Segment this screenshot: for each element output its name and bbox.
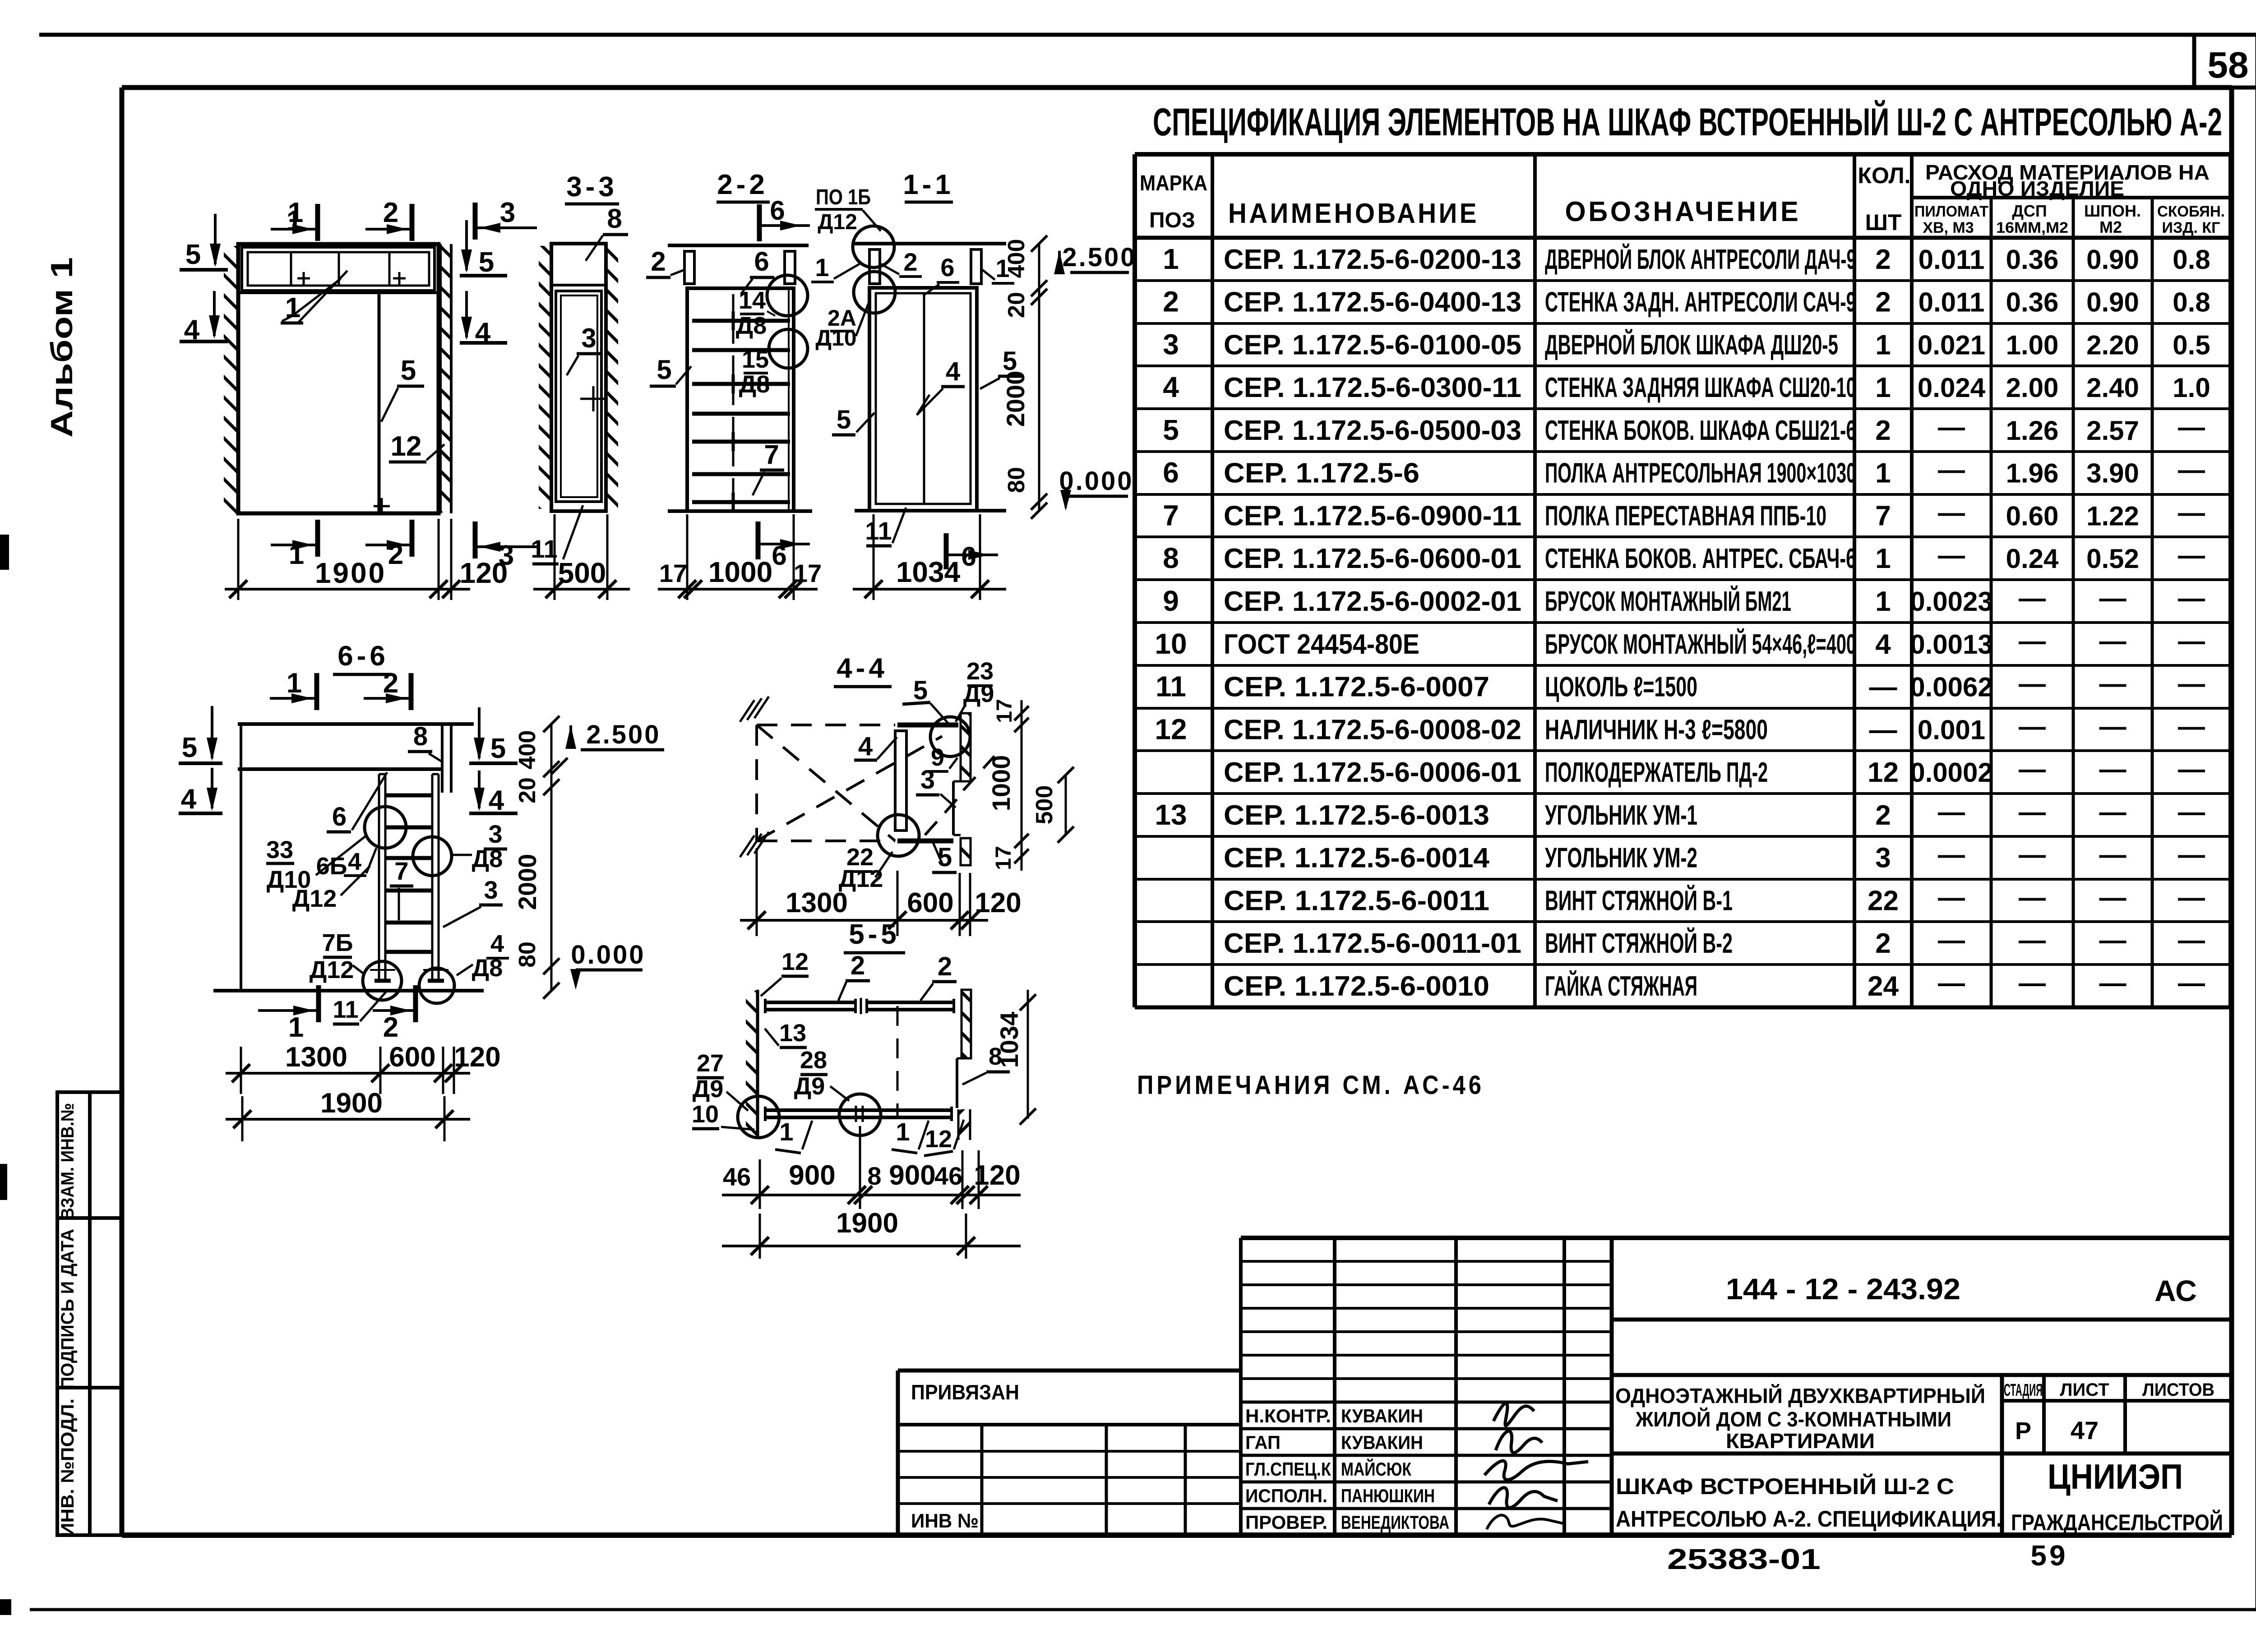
svg-text:—: — bbox=[2019, 925, 2046, 955]
svg-text:1.0: 1.0 bbox=[2173, 373, 2210, 403]
svg-text:МАРКА: МАРКА bbox=[1140, 171, 1207, 195]
svg-text:27: 27 bbox=[697, 1050, 724, 1077]
svg-text:500: 500 bbox=[558, 557, 606, 589]
svg-text:0.36: 0.36 bbox=[2006, 245, 2059, 275]
svg-text:3: 3 bbox=[920, 765, 935, 794]
svg-text:ШКАФ ВСТРОЕННЫЙ Ш-2 С: ШКАФ ВСТРОЕННЫЙ Ш-2 С bbox=[1616, 1473, 1954, 1499]
svg-text:6: 6 bbox=[940, 253, 954, 281]
svg-text:НАИМЕНОВАНИЕ: НАИМЕНОВАНИЕ bbox=[1228, 198, 1479, 229]
svg-text:33: 33 bbox=[266, 836, 293, 863]
svg-text:—: — bbox=[2099, 882, 2127, 912]
svg-text:0.60: 0.60 bbox=[2006, 501, 2059, 531]
svg-text:4: 4 bbox=[181, 784, 197, 815]
svg-text:Р: Р bbox=[2015, 1417, 2031, 1444]
svg-text:2: 2 bbox=[903, 248, 917, 276]
svg-text:600: 600 bbox=[389, 1042, 435, 1073]
svg-text:3: 3 bbox=[500, 197, 515, 228]
svg-text:ПОЛКА ПЕРЕСТАВНАЯ ППБ-10: ПОЛКА ПЕРЕСТАВНАЯ ППБ-10 bbox=[1545, 500, 1826, 531]
svg-text:1034: 1034 bbox=[896, 556, 961, 588]
svg-text:1.22: 1.22 bbox=[2086, 501, 2139, 531]
svg-text:11: 11 bbox=[865, 517, 892, 545]
svg-text:400: 400 bbox=[1003, 239, 1030, 278]
svg-text:УГОЛЬНИК УМ-1: УГОЛЬНИК УМ-1 bbox=[1545, 800, 1697, 831]
svg-text:—: — bbox=[2178, 754, 2205, 784]
svg-text:Н.КОНТР.: Н.КОНТР. bbox=[1245, 1405, 1331, 1426]
svg-text:2.500: 2.500 bbox=[1062, 243, 1137, 272]
svg-text:ПРИВЯЗАН: ПРИВЯЗАН bbox=[911, 1380, 1019, 1404]
svg-text:ЦОКОЛЬ ℓ=1500: ЦОКОЛЬ ℓ=1500 bbox=[1545, 672, 1697, 703]
svg-text:—: — bbox=[2178, 455, 2205, 485]
svg-text:4: 4 bbox=[1875, 629, 1891, 660]
svg-text:ПРОВЕР.: ПРОВЕР. bbox=[1245, 1512, 1327, 1533]
svg-text:1900: 1900 bbox=[315, 557, 386, 589]
svg-text:Д8: Д8 bbox=[736, 312, 767, 339]
svg-text:1: 1 bbox=[1875, 372, 1891, 403]
svg-text:0.011: 0.011 bbox=[1919, 245, 1985, 275]
svg-text:СТЕНКА ЗАДНЯЯ ШКАФА СШ20-10: СТЕНКА ЗАДНЯЯ ШКАФА СШ20-10 bbox=[1545, 372, 1856, 403]
svg-text:2.40: 2.40 bbox=[2086, 373, 2139, 403]
svg-text:—: — bbox=[1938, 540, 1965, 570]
svg-text:Д12: Д12 bbox=[818, 210, 857, 234]
svg-text:СПЕЦИФИКАЦИЯ ЭЛЕМЕНТОВ НА ШКАФ: СПЕЦИФИКАЦИЯ ЭЛЕМЕНТОВ НА ШКАФ ВСТРОЕННЫ… bbox=[1153, 100, 2222, 144]
svg-text:2: 2 bbox=[851, 951, 865, 980]
svg-text:Альбом 1: Альбом 1 bbox=[45, 257, 79, 438]
svg-text:КУВАКИН: КУВАКИН bbox=[1341, 1405, 1423, 1426]
svg-text:0.001: 0.001 bbox=[1918, 715, 1985, 745]
svg-text:1: 1 bbox=[288, 1012, 304, 1043]
svg-text:1900: 1900 bbox=[836, 1208, 898, 1239]
svg-text:БРУСОК МОНТАЖНЫЙ БМ21: БРУСОК МОНТАЖНЫЙ БМ21 bbox=[1545, 586, 1791, 617]
svg-text:5: 5 bbox=[401, 355, 416, 386]
svg-text:ПОЗ: ПОЗ bbox=[1149, 208, 1195, 232]
svg-text:6Б: 6Б bbox=[316, 853, 347, 880]
svg-text:3: 3 bbox=[1875, 843, 1891, 874]
svg-text:0.0002: 0.0002 bbox=[1910, 757, 1993, 788]
svg-text:—: — bbox=[2019, 583, 2046, 613]
svg-text:17: 17 bbox=[659, 559, 687, 587]
svg-text:10: 10 bbox=[1155, 628, 1187, 660]
svg-text:—: — bbox=[2178, 497, 2205, 527]
svg-text:5-5: 5-5 bbox=[849, 919, 900, 950]
svg-text:—: — bbox=[2099, 583, 2127, 613]
svg-text:—: — bbox=[2178, 840, 2205, 870]
svg-text:—: — bbox=[2099, 840, 2127, 870]
svg-text:—: — bbox=[2178, 540, 2205, 570]
svg-text:8: 8 bbox=[413, 722, 428, 751]
svg-text:0.36: 0.36 bbox=[2006, 287, 2059, 318]
svg-text:5: 5 bbox=[479, 247, 494, 278]
svg-text:0.024: 0.024 bbox=[1918, 373, 1986, 403]
svg-text:6: 6 bbox=[770, 195, 785, 226]
svg-text:1: 1 bbox=[288, 197, 303, 228]
svg-text:СЕР. 1.172.5-6-0900-11: СЕР. 1.172.5-6-0900-11 bbox=[1224, 500, 1521, 531]
svg-text:0.90: 0.90 bbox=[2086, 245, 2139, 275]
svg-text:СЕР. 1.172.5-6-0011: СЕР. 1.172.5-6-0011 bbox=[1224, 885, 1489, 916]
svg-text:2.500: 2.500 bbox=[586, 720, 661, 749]
svg-text:—: — bbox=[2178, 711, 2205, 741]
svg-text:8: 8 bbox=[607, 203, 622, 234]
svg-text:ВЕНЕДИКТОВА: ВЕНЕДИКТОВА bbox=[1341, 1512, 1449, 1533]
svg-text:1000: 1000 bbox=[987, 755, 1015, 812]
svg-text:3: 3 bbox=[1163, 328, 1179, 360]
svg-text:4: 4 bbox=[946, 357, 960, 386]
svg-text:1300: 1300 bbox=[786, 887, 848, 918]
svg-text:ГАЙКА СТЯЖНАЯ: ГАЙКА СТЯЖНАЯ bbox=[1545, 970, 1697, 1002]
svg-text:СЕР. 1.172.5-6-0008-02: СЕР. 1.172.5-6-0008-02 bbox=[1224, 714, 1521, 745]
svg-text:КУВАКИН: КУВАКИН bbox=[1341, 1432, 1423, 1453]
svg-text:1300: 1300 bbox=[285, 1042, 347, 1073]
svg-text:—: — bbox=[1938, 968, 1965, 998]
svg-text:—: — bbox=[1938, 925, 1965, 955]
svg-text:1: 1 bbox=[896, 1117, 910, 1146]
svg-text:0.5: 0.5 bbox=[2173, 330, 2210, 360]
svg-text:6: 6 bbox=[961, 541, 976, 572]
svg-text:—: — bbox=[2019, 669, 2046, 699]
svg-text:ВИНТ СТЯЖНОЙ В-1: ВИНТ СТЯЖНОЙ В-1 bbox=[1545, 885, 1733, 916]
svg-text:ЛИСТ: ЛИСТ bbox=[2060, 1380, 2109, 1400]
svg-text:—: — bbox=[2019, 840, 2046, 870]
svg-text:ШПОН.: ШПОН. bbox=[2084, 202, 2141, 220]
svg-text:—: — bbox=[2019, 968, 2046, 998]
svg-text:25383-01: 25383-01 bbox=[1667, 1543, 1821, 1575]
svg-text:1: 1 bbox=[285, 292, 300, 323]
svg-text:2: 2 bbox=[1163, 286, 1179, 318]
svg-text:ПОДПИСЬ И ДАТА: ПОДПИСЬ И ДАТА bbox=[58, 1229, 78, 1389]
svg-text:4-4: 4-4 bbox=[837, 653, 888, 684]
svg-text:7: 7 bbox=[1875, 500, 1891, 531]
svg-text:7: 7 bbox=[764, 439, 779, 470]
svg-text:СТАДИЯ: СТАДИЯ bbox=[2004, 1381, 2043, 1400]
svg-text:3: 3 bbox=[488, 820, 502, 848]
svg-text:12: 12 bbox=[925, 1126, 952, 1153]
svg-text:Д8: Д8 bbox=[739, 371, 770, 398]
svg-text:0.0062: 0.0062 bbox=[1910, 672, 1993, 702]
svg-text:—: — bbox=[2178, 412, 2205, 442]
svg-text:ГЛ.СПЕЦ.К: ГЛ.СПЕЦ.К bbox=[1245, 1458, 1331, 1480]
svg-text:11: 11 bbox=[1156, 670, 1186, 703]
svg-text:1: 1 bbox=[1875, 458, 1891, 489]
svg-text:—: — bbox=[1938, 882, 1965, 912]
svg-text:КВАРТИРАМИ: КВАРТИРАМИ bbox=[1726, 1429, 1875, 1453]
svg-text:2: 2 bbox=[1875, 287, 1891, 318]
svg-text:Д8: Д8 bbox=[472, 955, 503, 982]
svg-text:СКОБЯН.: СКОБЯН. bbox=[2157, 203, 2225, 220]
svg-text:СЕР. 1.172.5-6-0007: СЕР. 1.172.5-6-0007 bbox=[1224, 672, 1489, 703]
svg-text:500: 500 bbox=[1031, 785, 1058, 825]
svg-text:ОБОЗНАЧЕНИЕ: ОБОЗНАЧЕНИЕ bbox=[1565, 196, 1801, 227]
svg-text:2: 2 bbox=[938, 952, 952, 981]
svg-text:144 - 12 - 243.92: 144 - 12 - 243.92 bbox=[1726, 1272, 1960, 1306]
svg-text:22: 22 bbox=[1868, 885, 1899, 916]
svg-text:2-2: 2-2 bbox=[717, 169, 768, 200]
svg-text:ПИЛОМАТ: ПИЛОМАТ bbox=[1914, 203, 1988, 220]
svg-text:—: — bbox=[2099, 754, 2127, 784]
svg-text:5: 5 bbox=[490, 733, 506, 764]
svg-text:0.0013: 0.0013 bbox=[1910, 629, 1993, 660]
svg-text:ОДНОЭТАЖНЫЙ ДВУХКВАРТИРНЫЙ: ОДНОЭТАЖНЫЙ ДВУХКВАРТИРНЫЙ bbox=[1615, 1384, 1985, 1407]
svg-text:1.26: 1.26 bbox=[2006, 415, 2059, 446]
svg-text:СЕР. 1.172.5-6-0300-11: СЕР. 1.172.5-6-0300-11 bbox=[1224, 372, 1521, 403]
svg-text:3: 3 bbox=[484, 876, 498, 904]
svg-text:—: — bbox=[2178, 626, 2205, 656]
svg-text:—: — bbox=[1869, 672, 1897, 703]
svg-text:1: 1 bbox=[1163, 243, 1179, 275]
svg-text:ПОЛКА АНТРЕСОЛЬНАЯ 1900×1030: ПОЛКА АНТРЕСОЛЬНАЯ 1900×1030 bbox=[1545, 458, 1856, 489]
svg-text:М2: М2 bbox=[2099, 218, 2122, 236]
svg-text:СЕР. 1.172.5-6-0600-01: СЕР. 1.172.5-6-0600-01 bbox=[1224, 543, 1521, 574]
svg-text:1: 1 bbox=[815, 253, 829, 281]
svg-text:7: 7 bbox=[1163, 499, 1179, 531]
svg-text:—: — bbox=[1938, 797, 1965, 827]
svg-text:Д12: Д12 bbox=[310, 956, 354, 983]
svg-text:0.90: 0.90 bbox=[2086, 287, 2139, 318]
svg-text:МАЙСЮК: МАЙСЮК bbox=[1341, 1458, 1411, 1480]
svg-text:2.20: 2.20 bbox=[2086, 330, 2139, 360]
svg-text:СТЕНКА ЗАДН. АНТРЕСОЛИ САЧ-9: СТЕНКА ЗАДН. АНТРЕСОЛИ САЧ-9 bbox=[1545, 287, 1856, 318]
svg-text:ГОСТ 24454-80Е: ГОСТ 24454-80Е bbox=[1224, 629, 1419, 660]
svg-text:17: 17 bbox=[794, 559, 822, 587]
svg-text:58: 58 bbox=[2207, 45, 2248, 86]
svg-text:ВИНТ СТЯЖНОЙ В-2: ВИНТ СТЯЖНОЙ В-2 bbox=[1545, 928, 1733, 959]
svg-text:—: — bbox=[1938, 412, 1965, 442]
svg-text:—: — bbox=[2178, 882, 2205, 912]
svg-text:Д9: Д9 bbox=[794, 1073, 825, 1100]
svg-text:3: 3 bbox=[581, 323, 596, 353]
svg-text:1: 1 bbox=[1875, 329, 1891, 360]
svg-text:3-3: 3-3 bbox=[566, 171, 618, 203]
svg-text:СЕР. 1.172.5-6-0500-03: СЕР. 1.172.5-6-0500-03 bbox=[1224, 415, 1521, 446]
svg-text:600: 600 bbox=[907, 887, 953, 918]
svg-text:0.8: 0.8 bbox=[2173, 245, 2210, 275]
svg-text:80: 80 bbox=[514, 941, 541, 968]
svg-text:СЕР. 1.172.5-6-0014: СЕР. 1.172.5-6-0014 bbox=[1224, 843, 1490, 874]
svg-text:0.011: 0.011 bbox=[1919, 287, 1985, 318]
svg-text:5: 5 bbox=[837, 405, 851, 434]
svg-text:12: 12 bbox=[781, 948, 809, 975]
svg-text:Д9: Д9 bbox=[693, 1075, 724, 1103]
svg-text:—: — bbox=[2178, 968, 2205, 998]
svg-text:2: 2 bbox=[1875, 244, 1891, 275]
svg-text:6: 6 bbox=[1163, 457, 1179, 489]
svg-text:—: — bbox=[2178, 797, 2205, 827]
svg-text:6: 6 bbox=[772, 540, 786, 571]
svg-text:ПАНЮШКИН: ПАНЮШКИН bbox=[1341, 1485, 1435, 1506]
svg-text:2: 2 bbox=[383, 197, 398, 228]
svg-text:13: 13 bbox=[779, 1020, 806, 1047]
svg-text:0.000: 0.000 bbox=[571, 940, 645, 969]
svg-text:—: — bbox=[2178, 583, 2205, 613]
svg-text:2: 2 bbox=[1875, 800, 1891, 831]
svg-text:ПОЛКОДЕРЖАТЕЛЬ ПД-2: ПОЛКОДЕРЖАТЕЛЬ ПД-2 bbox=[1545, 757, 1768, 788]
svg-text:—: — bbox=[2019, 882, 2046, 912]
svg-text:—: — bbox=[2099, 626, 2127, 656]
svg-text:0.0023: 0.0023 bbox=[1910, 586, 1993, 617]
svg-text:9: 9 bbox=[1163, 585, 1179, 617]
svg-text:1: 1 bbox=[779, 1117, 793, 1146]
svg-text:АНТРЕСОЛЬЮ А-2. СПЕЦИФИКАЦИЯ.: АНТРЕСОЛЬЮ А-2. СПЕЦИФИКАЦИЯ. bbox=[1616, 1506, 2002, 1532]
svg-text:2: 2 bbox=[383, 668, 398, 699]
svg-text:0.021: 0.021 bbox=[1918, 330, 1985, 360]
svg-text:1: 1 bbox=[1875, 543, 1891, 574]
svg-text:ВЗАМ. ИНВ.№: ВЗАМ. ИНВ.№ bbox=[58, 1103, 78, 1220]
svg-text:ГРАЖДАНСЕЛЬСТРОЙ: ГРАЖДАНСЕЛЬСТРОЙ bbox=[2011, 1509, 2223, 1535]
svg-text:5: 5 bbox=[185, 239, 201, 270]
svg-text:ИНВ. №ПОДЛ.: ИНВ. №ПОДЛ. bbox=[58, 1398, 78, 1537]
svg-text:400: 400 bbox=[514, 730, 541, 770]
svg-text:ХВ, М3: ХВ, М3 bbox=[1923, 219, 1974, 236]
svg-text:2000: 2000 bbox=[1001, 371, 1030, 427]
svg-text:12: 12 bbox=[1155, 713, 1187, 745]
svg-text:СЕР. 1.172.5-6-0010: СЕР. 1.172.5-6-0010 bbox=[1224, 971, 1489, 1002]
svg-text:ПО 1Б: ПО 1Б bbox=[816, 185, 871, 209]
svg-text:ПРИМЕЧАНИЯ СМ. АС-46: ПРИМЕЧАНИЯ СМ. АС-46 bbox=[1137, 1071, 1484, 1100]
svg-text:БРУСОК МОНТАЖНЫЙ 54×46,ℓ=400: БРУСОК МОНТАЖНЫЙ 54×46,ℓ=400 bbox=[1545, 628, 1856, 660]
svg-text:46: 46 bbox=[934, 1162, 962, 1190]
svg-text:ЛИСТОВ: ЛИСТОВ bbox=[2142, 1380, 2214, 1400]
svg-text:СЕР. 1.172.5-6-0400-13: СЕР. 1.172.5-6-0400-13 bbox=[1224, 287, 1521, 318]
svg-text:2.57: 2.57 bbox=[2086, 415, 2139, 446]
svg-text:2: 2 bbox=[1875, 415, 1891, 446]
svg-text:Д9: Д9 bbox=[963, 680, 994, 707]
svg-text:6-6: 6-6 bbox=[337, 641, 389, 672]
svg-text:900: 900 bbox=[889, 1160, 935, 1191]
svg-text:АС: АС bbox=[2154, 1274, 2197, 1307]
svg-text:5: 5 bbox=[656, 355, 671, 385]
svg-text:5: 5 bbox=[182, 732, 197, 763]
svg-text:—: — bbox=[1938, 840, 1965, 870]
svg-text:10: 10 bbox=[692, 1101, 719, 1128]
svg-text:2: 2 bbox=[388, 539, 403, 570]
svg-text:Д8: Д8 bbox=[472, 845, 503, 872]
svg-text:47: 47 bbox=[2071, 1416, 2099, 1444]
svg-text:1-1: 1-1 bbox=[903, 169, 954, 200]
svg-text:СЕР. 1.172.5-6-0013: СЕР. 1.172.5-6-0013 bbox=[1224, 800, 1489, 831]
svg-text:15: 15 bbox=[742, 346, 769, 373]
svg-text:7Б: 7Б bbox=[322, 929, 353, 956]
svg-text:5: 5 bbox=[1163, 414, 1179, 446]
svg-text:17: 17 bbox=[992, 846, 1016, 870]
svg-text:Д12: Д12 bbox=[292, 885, 337, 912]
svg-text:6: 6 bbox=[754, 246, 769, 277]
svg-text:УГОЛЬНИК УМ-2: УГОЛЬНИК УМ-2 bbox=[1545, 843, 1697, 874]
svg-text:1: 1 bbox=[287, 668, 302, 699]
svg-text:ЦНИИЭП: ЦНИИЭП bbox=[2048, 1457, 2183, 1496]
svg-text:2000: 2000 bbox=[513, 854, 541, 910]
svg-text:—: — bbox=[1938, 497, 1965, 527]
svg-text:16ММ,М2: 16ММ,М2 bbox=[1996, 219, 2068, 236]
svg-text:3.90: 3.90 bbox=[2086, 458, 2139, 489]
svg-text:2.00: 2.00 bbox=[2006, 373, 2059, 403]
svg-text:4: 4 bbox=[1163, 371, 1179, 403]
svg-text:—: — bbox=[2099, 711, 2127, 741]
svg-text:0.8: 0.8 bbox=[2173, 287, 2210, 318]
svg-text:ИНВ №: ИНВ № bbox=[911, 1510, 979, 1532]
svg-text:Д10: Д10 bbox=[815, 325, 856, 351]
svg-text:1900: 1900 bbox=[320, 1088, 383, 1119]
svg-text:20: 20 bbox=[514, 777, 541, 803]
svg-text:СЕР. 1.172.5-6-0006-01: СЕР. 1.172.5-6-0006-01 bbox=[1224, 757, 1521, 788]
svg-text:СТЕНКА БОКОВ. АНТРЕС. СБАЧ-6: СТЕНКА БОКОВ. АНТРЕС. СБАЧ-6 bbox=[1545, 543, 1856, 574]
svg-text:КОЛ.: КОЛ. bbox=[1858, 163, 1910, 188]
svg-text:1: 1 bbox=[289, 539, 304, 570]
svg-text:СЕР. 1.172.5-6-0002-01: СЕР. 1.172.5-6-0002-01 bbox=[1224, 586, 1521, 617]
svg-text:ГАП: ГАП bbox=[1245, 1432, 1281, 1453]
svg-text:1: 1 bbox=[1875, 586, 1891, 617]
svg-text:2: 2 bbox=[651, 246, 666, 277]
svg-text:12: 12 bbox=[391, 431, 422, 462]
svg-text:17: 17 bbox=[993, 699, 1017, 723]
svg-text:ИСПОЛН.: ИСПОЛН. bbox=[1245, 1485, 1327, 1506]
svg-text:ДВЕРНОЙ БЛОК АНТРЕСОЛИ ДАЧ-9: ДВЕРНОЙ БЛОК АНТРЕСОЛИ ДАЧ-9 bbox=[1545, 244, 1856, 275]
svg-text:ШТ: ШТ bbox=[1865, 210, 1902, 235]
svg-text:НАЛИЧНИК Н-3 ℓ=5800: НАЛИЧНИК Н-3 ℓ=5800 bbox=[1545, 714, 1768, 745]
svg-text:11: 11 bbox=[333, 996, 358, 1023]
svg-text:12: 12 bbox=[1868, 757, 1899, 788]
svg-text:2: 2 bbox=[1875, 928, 1891, 959]
svg-text:—: — bbox=[2019, 626, 2046, 656]
svg-text:120: 120 bbox=[975, 887, 1021, 918]
svg-text:2: 2 bbox=[383, 1012, 398, 1043]
svg-text:4: 4 bbox=[858, 732, 873, 761]
svg-text:59: 59 bbox=[2030, 1539, 2068, 1572]
svg-text:7: 7 bbox=[394, 857, 408, 885]
svg-text:СЕР. 1.172.5-6-0011-01: СЕР. 1.172.5-6-0011-01 bbox=[1224, 928, 1521, 959]
svg-text:СЕР. 1.172.5-6: СЕР. 1.172.5-6 bbox=[1224, 458, 1419, 489]
svg-text:СТЕНКА БОКОВ. ШКАФА СБШ21-6: СТЕНКА БОКОВ. ШКАФА СБШ21-6 bbox=[1545, 415, 1856, 446]
svg-text:1034: 1034 bbox=[995, 1012, 1023, 1068]
svg-text:8: 8 bbox=[1163, 542, 1179, 574]
svg-text:ЖИЛОЙ ДОМ С 3-КОМНАТНЫМИ: ЖИЛОЙ ДОМ С 3-КОМНАТНЫМИ bbox=[1635, 1407, 1951, 1431]
svg-text:6: 6 bbox=[332, 802, 347, 831]
svg-text:4: 4 bbox=[489, 785, 504, 816]
svg-text:—: — bbox=[2178, 669, 2205, 699]
svg-text:1.00: 1.00 bbox=[2006, 330, 2059, 360]
svg-text:900: 900 bbox=[789, 1160, 835, 1191]
svg-text:1000: 1000 bbox=[708, 556, 772, 588]
svg-text:—: — bbox=[2099, 925, 2127, 955]
svg-text:80: 80 bbox=[1003, 467, 1030, 493]
svg-text:—: — bbox=[2099, 797, 2127, 827]
svg-text:СЕР. 1.172.5-6-0100-05: СЕР. 1.172.5-6-0100-05 bbox=[1224, 329, 1521, 360]
svg-text:5: 5 bbox=[913, 676, 928, 705]
svg-text:24: 24 bbox=[1868, 971, 1899, 1002]
svg-text:4: 4 bbox=[348, 848, 361, 875]
svg-text:ДВЕРНОЙ БЛОК ШКАФА ДШ20-5: ДВЕРНОЙ БЛОК ШКАФА ДШ20-5 bbox=[1545, 329, 1838, 360]
svg-text:—: — bbox=[1938, 455, 1965, 485]
svg-text:46: 46 bbox=[723, 1163, 751, 1191]
svg-text:ОДНО ИЗДЕЛИЕ: ОДНО ИЗДЕЛИЕ bbox=[1950, 177, 2124, 200]
svg-text:120: 120 bbox=[460, 557, 508, 589]
svg-text:ИЗД. КГ: ИЗД. КГ bbox=[2162, 219, 2220, 236]
svg-text:—: — bbox=[1869, 714, 1897, 745]
svg-text:28: 28 bbox=[800, 1047, 827, 1074]
svg-text:14: 14 bbox=[739, 287, 766, 314]
svg-text:—: — bbox=[2019, 754, 2046, 784]
svg-text:0.52: 0.52 bbox=[2086, 544, 2139, 574]
svg-text:СЕР. 1.172.5-6-0200-13: СЕР. 1.172.5-6-0200-13 bbox=[1224, 244, 1521, 275]
svg-text:—: — bbox=[2178, 925, 2205, 955]
svg-text:—: — bbox=[2099, 669, 2127, 699]
svg-text:1.96: 1.96 bbox=[2006, 458, 2059, 489]
svg-text:—: — bbox=[2099, 968, 2127, 998]
svg-text:20: 20 bbox=[1003, 292, 1030, 318]
svg-text:—: — bbox=[2019, 711, 2046, 741]
svg-text:13: 13 bbox=[1155, 798, 1187, 831]
svg-text:—: — bbox=[2019, 797, 2046, 827]
svg-text:120: 120 bbox=[974, 1160, 1020, 1191]
svg-text:8: 8 bbox=[867, 1162, 881, 1190]
svg-text:4: 4 bbox=[490, 930, 504, 957]
